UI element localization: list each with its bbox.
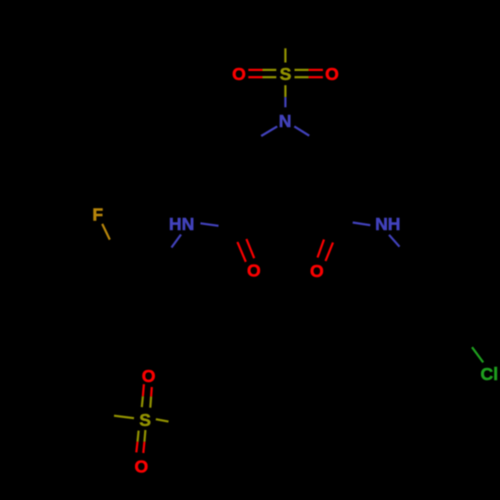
svg-text:S: S (139, 410, 151, 430)
bond N2(HN)-C(=O) amide left (200, 223, 218, 226)
bond N1-C5 ring stub right (294, 126, 309, 135)
svg-text:O: O (247, 261, 261, 281)
svg-text:HN: HN (169, 214, 194, 234)
svg-text:NH: NH (375, 214, 400, 234)
svg-text:N: N (279, 111, 292, 131)
bond N2(HN)-aryl ring (172, 235, 182, 248)
svg-text:O: O (310, 261, 324, 281)
svg-text:O: O (325, 64, 339, 84)
bond N1-C2 ring stub left (261, 126, 277, 136)
bond S2=O6 lower double bond (136, 430, 145, 453)
svg-text:S: S (280, 64, 292, 84)
bond N3(NH)-C(=O) amide right (353, 223, 371, 226)
bond C=O3 left amide double bond (237, 239, 254, 262)
bond C=O4 right amide double bond (318, 240, 334, 262)
bond S1=O2 right double bond (295, 70, 323, 77)
svg-text:O: O (135, 456, 149, 476)
svg-text:O: O (232, 64, 246, 84)
bond S1=O1 left double bond (248, 70, 276, 77)
bond N3(NH)-aryl ring (389, 235, 400, 247)
bond CH3-S2 stub left (114, 416, 134, 419)
bond CH2-S2 stub right (156, 419, 169, 421)
svg-text:F: F (92, 205, 103, 225)
bond S1-N1 (284, 85, 286, 107)
svg-text:Cl: Cl (481, 364, 499, 384)
svg-text:O: O (142, 366, 156, 386)
bond F-aryl stub (102, 224, 110, 240)
bond CH3-S1 (olive half) (284, 48, 286, 62)
bond S2=O5 upper double bond (142, 384, 152, 408)
bond Cl-aryl stub (472, 347, 483, 362)
